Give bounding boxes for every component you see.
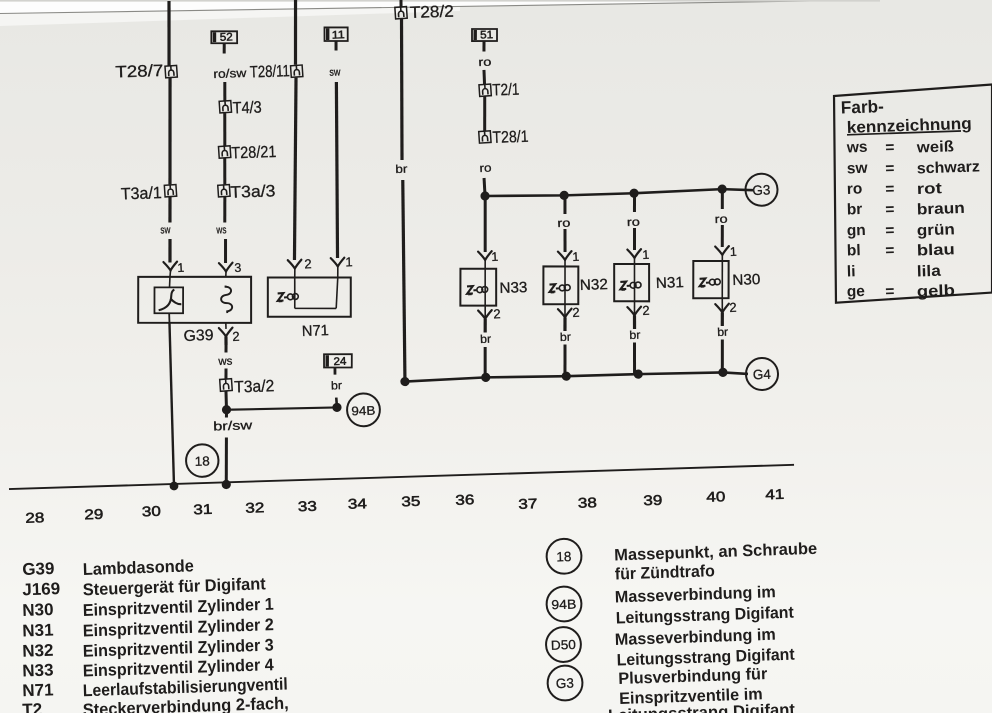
N31 pin 2 terminal: [627, 301, 642, 329]
wire color label ro at N30: [714, 214, 727, 226]
ground bus wire to G4: [405, 369, 748, 386]
wire A middle segment: [166, 78, 173, 185]
svg-text:rot: rot: [917, 180, 943, 198]
wire B stub below box 52: [222, 43, 226, 53]
legend title kennzeichnung underlined: [846, 115, 972, 137]
current track number 34: [348, 495, 368, 512]
wire segment N33 to G4 bus: [484, 347, 486, 377]
N71 pin 2 terminal: [288, 260, 302, 278]
svg-text:ro/sw: ro/sw: [213, 66, 247, 81]
connector T3a/1: [164, 185, 176, 197]
wire segment to T3a/2: [224, 368, 228, 378]
svg-text:2: 2: [642, 303, 650, 318]
page edge wedge: [0, 0, 880, 26]
color code row ge gelb: [847, 280, 956, 303]
svg-text:T2: T2: [22, 700, 42, 713]
svg-text:schwarz: schwarz: [917, 158, 981, 177]
svg-text:2: 2: [304, 256, 312, 271]
legend text Plusverbindung: [618, 665, 768, 688]
current track number 30: [142, 503, 162, 520]
svg-text:ro: ro: [627, 217, 640, 229]
color code row ws weiß: [846, 136, 955, 159]
wire stub G3 bus to N31: [634, 193, 635, 212]
N33 pin 1 terminal: [478, 251, 492, 269]
N30 pin 2 terminal: [715, 298, 730, 326]
svg-text:D50: D50: [551, 637, 576, 653]
pin number 2 at N33: [493, 306, 501, 321]
wire segment T3a/2 to junction: [224, 391, 228, 410]
svg-text:3: 3: [234, 261, 241, 275]
svg-text:ro: ro: [479, 163, 491, 175]
svg-text:li: li: [847, 263, 856, 280]
label T28/2: [410, 3, 455, 22]
injector valve N30 box: [692, 260, 730, 299]
svg-text:N33: N33: [499, 279, 528, 297]
terminal box 51: [472, 28, 498, 42]
svg-text:br: br: [331, 380, 343, 392]
svg-text:1: 1: [345, 254, 353, 269]
node dot G3 bus at N31: [629, 189, 638, 198]
ground connection 94B circle: [347, 393, 381, 427]
legend text Leitungsstrang 94B: [616, 604, 795, 628]
wire B segment to G39 pin 3: [225, 239, 227, 263]
svg-text:52: 52: [220, 31, 233, 43]
svg-text:ws: ws: [846, 139, 868, 157]
label T28/11: [250, 62, 291, 81]
legend symbol 94B label: [551, 596, 576, 612]
G39 inner wire pin1: [169, 277, 170, 287]
svg-text:33: 33: [298, 498, 318, 515]
legend text Leitungsstrang D50: [616, 646, 795, 670]
svg-text:T28/7: T28/7: [115, 62, 164, 82]
svg-text:=: =: [885, 181, 895, 198]
label G4: [753, 367, 772, 383]
legend text Masseverbindung 94B: [615, 583, 777, 606]
svg-text:1: 1: [730, 245, 737, 259]
node dot G4 bus at N31: [633, 369, 643, 378]
wire B segment 1: [224, 82, 225, 101]
ground connection G4 circle: [745, 357, 778, 390]
wire D segment: [332, 82, 343, 258]
pin number 2 at G39: [232, 329, 240, 344]
svg-text:T3a/2: T3a/2: [234, 377, 275, 396]
G39 inner wire below lambda box: [168, 313, 170, 323]
sensor G39 box: [137, 273, 253, 326]
ground point 18 circle: [186, 444, 219, 477]
svg-text:39: 39: [643, 492, 663, 509]
svg-text:ro: ro: [847, 180, 863, 198]
injector valve N32 box: [542, 265, 579, 305]
svg-text:N30: N30: [732, 271, 761, 289]
N30 inner wire: [721, 261, 724, 298]
svg-text:N32: N32: [22, 641, 54, 661]
pin number 1 at N32: [572, 250, 579, 264]
color code row li lila: [847, 260, 942, 282]
pin number 2 at N31: [642, 303, 650, 318]
svg-text:94B: 94B: [551, 596, 576, 612]
connector T28/11: [291, 65, 303, 77]
N32 valve icon: [549, 283, 570, 293]
legend text fuer Zuendtrafo: [615, 562, 716, 583]
wire E top stub: [399, 0, 402, 7]
wire A segment from G39 to rail: [169, 323, 175, 486]
G39 pin 2 terminal: [219, 323, 233, 346]
svg-text:br: br: [395, 164, 408, 176]
wire segment N31 to G4 bus: [633, 343, 635, 375]
label T3a/3: [230, 182, 276, 201]
svg-text:=: =: [885, 201, 895, 218]
current track number 37: [518, 495, 538, 512]
connector T28/21: [218, 146, 230, 158]
svg-text:=: =: [885, 283, 895, 300]
wire segment to N31 pin 1: [634, 228, 635, 250]
junction dot wire A on rail: [169, 481, 178, 490]
legend symbol D50 circle: [545, 627, 581, 663]
pin number 2 at N71: [304, 256, 312, 271]
svg-text:ro: ro: [557, 218, 570, 230]
svg-text:94B: 94B: [351, 404, 375, 419]
wire color label ro at N32: [557, 218, 570, 230]
wire color label br at N33: [480, 334, 492, 346]
svg-text:sw: sw: [847, 160, 869, 178]
wire color label br at N32: [560, 332, 572, 344]
wire color label ws below G39: [217, 356, 233, 368]
label N32: [580, 276, 609, 294]
label N71: [302, 322, 330, 340]
wire F segment 1: [482, 70, 486, 84]
wire C long segment: [288, 78, 302, 260]
wire link junction to 94B node: [226, 406, 336, 411]
legend text Masseverbindung D50: [615, 626, 777, 649]
legend row T2: [22, 692, 289, 718]
label T2/1: [492, 81, 520, 100]
svg-text:51: 51: [480, 29, 493, 41]
N33 inner wire: [484, 269, 486, 306]
svg-text:24: 24: [333, 356, 346, 368]
svg-text:18: 18: [556, 549, 572, 564]
svg-text:G39: G39: [22, 559, 55, 579]
svg-text:für Zündtrafo: für Zündtrafo: [615, 562, 716, 583]
legend symbol 18 label: [556, 549, 572, 564]
svg-text:1: 1: [177, 261, 184, 275]
svg-text:lila: lila: [917, 263, 942, 281]
legend row N32: [22, 633, 274, 662]
junction dot wire br/sw on rail: [222, 480, 231, 490]
current track number 29: [84, 506, 104, 523]
svg-text:36: 36: [455, 491, 475, 508]
wire stub G3 bus to N32: [564, 195, 565, 214]
color legend box Farb-kennzeichnung: [829, 85, 992, 303]
wire E lower segment: [398, 180, 409, 382]
label N31: [656, 274, 685, 292]
current track rail line: [9, 463, 794, 491]
legend text Leitungsstrang G3 cut: [608, 701, 796, 718]
wire color label br at N31: [629, 330, 641, 342]
svg-text:N30: N30: [22, 600, 54, 620]
N31 pin 1 terminal: [627, 249, 641, 264]
wire segment junction to rail: [225, 438, 228, 485]
svg-text:T3a/3: T3a/3: [230, 182, 276, 201]
connector T28/1: [479, 131, 491, 143]
wire color label br on wire E: [395, 164, 408, 176]
pin number 1 at N71: [345, 254, 353, 269]
wire C top segment: [293, 0, 297, 65]
svg-text:35: 35: [401, 493, 421, 510]
legend symbol D50 label: [551, 637, 576, 653]
legend row N30: [22, 593, 274, 622]
legend row J169: [22, 572, 266, 601]
N31 valve icon: [620, 281, 641, 291]
current track number 35: [401, 493, 421, 510]
svg-text:37: 37: [518, 495, 538, 512]
svg-text:br: br: [560, 332, 572, 344]
svg-text:N71: N71: [302, 322, 330, 340]
svg-text:11: 11: [332, 29, 345, 41]
wire color label ro lower: [479, 163, 491, 175]
wire stub 24 to node: [335, 398, 338, 408]
node dot G4 bus at N32: [562, 371, 572, 380]
junction node dot br/sw: [222, 405, 231, 414]
pin number 1 at N30: [730, 245, 737, 259]
svg-text:ge: ge: [847, 283, 866, 301]
label T3a/2: [234, 377, 275, 396]
legend text Massepunkt: [614, 540, 817, 565]
legend row G39: [22, 554, 194, 581]
pin number 1 at G39: [177, 261, 184, 275]
connector T3a/2: [220, 379, 233, 392]
svg-text:T2/1: T2/1: [492, 81, 520, 100]
pin number 2 at N30: [729, 300, 737, 315]
svg-text:gelb: gelb: [917, 282, 956, 300]
wire E long segment (br): [397, 18, 406, 160]
svg-text:38: 38: [578, 494, 598, 511]
wire stub below box 24: [333, 367, 336, 374]
svg-text:28: 28: [25, 509, 45, 526]
G39 heater element zigzag: [220, 285, 232, 313]
G39 pin 3 terminal: [219, 263, 233, 278]
svg-text:weiß: weiß: [916, 138, 955, 156]
valve N71 box: [267, 275, 353, 320]
svg-text:J169: J169: [22, 579, 60, 599]
N71 valve icon: [277, 292, 298, 302]
wire D stub below box 11: [334, 41, 338, 51]
label T28/1: [492, 128, 529, 147]
wire A top segment (sw): [167, 1, 171, 66]
svg-text:br: br: [717, 327, 729, 339]
svg-text:T28/21: T28/21: [231, 143, 277, 162]
svg-text:2: 2: [493, 306, 501, 321]
node dot G3 bus at N30: [717, 184, 727, 193]
svg-text:br/sw: br/sw: [213, 418, 254, 433]
svg-text:34: 34: [348, 495, 368, 512]
wire F stub below box 51: [482, 41, 486, 52]
wire B segment 4: [224, 197, 226, 223]
svg-text:sw: sw: [160, 224, 170, 236]
N30 pin 1 terminal: [715, 246, 729, 261]
wire segment N30 to G4 bus: [721, 340, 723, 373]
svg-text:2: 2: [572, 305, 580, 320]
wire A segment to G39 pin 1: [169, 239, 171, 263]
legend text Einspritzventile: [619, 685, 763, 708]
terminal box 24: [324, 353, 353, 368]
svg-text:T28/11: T28/11: [250, 62, 291, 81]
svg-text:N33: N33: [22, 660, 54, 680]
wire B segment 2: [224, 113, 226, 145]
wire F segment to G3 node: [483, 178, 487, 196]
wire color label br/sw: [213, 418, 254, 433]
wire color label ro top: [478, 57, 491, 69]
connector T4/3: [219, 101, 231, 113]
wire color label ro at N31: [627, 217, 640, 229]
wire segment G3 bus to N33: [483, 197, 487, 252]
svg-text:=: =: [885, 242, 895, 259]
current track number 41: [765, 486, 785, 503]
wire segment to N32 pin 1: [564, 229, 565, 252]
svg-text:T28/1: T28/1: [492, 128, 529, 147]
svg-text:G39: G39: [183, 327, 214, 345]
svg-text:blau: blau: [917, 241, 956, 259]
svg-text:br: br: [629, 330, 641, 342]
svg-text:G3: G3: [556, 676, 575, 692]
node dot G3 bus at N33: [480, 191, 490, 200]
svg-text:G3: G3: [752, 182, 770, 198]
wire color label sw: [160, 224, 170, 236]
N30 valve icon: [699, 277, 720, 287]
svg-text:gn: gn: [847, 222, 866, 240]
wire segment to N30 pin 1: [722, 225, 724, 247]
pin number 1 at N33: [491, 250, 498, 264]
svg-text:N31: N31: [656, 274, 685, 292]
current track number 32: [245, 499, 265, 516]
svg-text:G4: G4: [753, 367, 772, 383]
wire A lower segment: [169, 197, 171, 222]
label G3: [752, 182, 770, 198]
pin number 1 at N31: [642, 248, 649, 262]
wire color label br at N30: [717, 327, 729, 339]
wire color label ro/sw: [213, 66, 247, 81]
wire color label sw on wire D: [329, 66, 340, 78]
label T28/7: [115, 62, 164, 82]
svg-text:31: 31: [193, 501, 213, 518]
label T3a/1: [120, 184, 162, 203]
connector T2/1: [479, 84, 491, 96]
connector T3a/3: [218, 185, 230, 197]
current track number 31: [193, 501, 213, 518]
N71 inner wire loop: [294, 276, 339, 310]
svg-text:ro: ro: [478, 57, 491, 69]
current track number 36: [455, 491, 475, 508]
color code row bl blau: [847, 239, 955, 262]
N32 pin 2 terminal: [558, 304, 572, 331]
wire B segment 3: [224, 158, 226, 184]
plus connection G3 circle: [745, 173, 778, 206]
svg-text:18: 18: [194, 453, 209, 468]
legend row N71: [22, 673, 288, 703]
G39 pin 1 terminal: [163, 262, 177, 278]
svg-text:bl: bl: [847, 242, 861, 259]
current track number 39: [643, 492, 663, 509]
svg-text:br: br: [847, 201, 863, 219]
pin number 3 at G39: [234, 261, 241, 275]
legend symbol 94B circle: [546, 586, 582, 622]
legend row N31: [22, 613, 274, 642]
legend symbol 18 circle: [546, 538, 582, 574]
svg-text:N32: N32: [580, 276, 609, 294]
label G39: [183, 327, 214, 345]
legend symbol G3 label: [556, 676, 575, 692]
N33 pin 2 terminal: [478, 305, 492, 332]
svg-text:T3a/1: T3a/1: [120, 184, 162, 203]
color code row gn grün: [847, 219, 956, 242]
svg-text:1: 1: [491, 250, 498, 264]
svg-text:30: 30: [142, 503, 162, 520]
node dot G4 bus at N30: [718, 368, 728, 378]
wire color label br below box 24: [331, 380, 343, 392]
terminal box 52: [211, 30, 238, 44]
injector valve N33 box: [459, 268, 497, 307]
terminal box 11: [324, 27, 348, 42]
svg-text:braun: braun: [917, 200, 966, 219]
wire stub G3 bus to N30: [722, 189, 723, 209]
N71 pin 1 terminal: [331, 258, 345, 278]
svg-text:2: 2: [729, 300, 737, 315]
N33 valve icon: [467, 285, 488, 295]
svg-text:40: 40: [706, 488, 726, 505]
label T4/3: [232, 99, 262, 118]
wire segment N32 to G4 bus: [564, 345, 566, 377]
svg-text:41: 41: [765, 486, 785, 503]
svg-text:N71: N71: [22, 680, 54, 700]
label N33: [499, 279, 528, 297]
svg-text:T28/2: T28/2: [410, 3, 455, 22]
svg-text:=: =: [885, 160, 895, 177]
N32 inner wire: [564, 266, 567, 304]
legend row N33: [22, 653, 274, 682]
legend symbol G3 circle: [547, 665, 583, 701]
label T28/21: [231, 143, 277, 162]
node dot G4 bus at wire E: [400, 377, 410, 386]
svg-text:=: =: [885, 222, 895, 239]
svg-text:=: =: [885, 139, 895, 156]
current track number 40: [706, 488, 726, 505]
svg-text:Lambdasonde: Lambdasonde: [82, 556, 194, 579]
color code row ro rot: [847, 178, 943, 200]
injector valve N31 box: [613, 263, 650, 303]
svg-text:1: 1: [572, 250, 579, 264]
label 18: [194, 453, 209, 468]
svg-text:32: 32: [245, 499, 265, 516]
color code row sw schwarz: [847, 156, 981, 180]
svg-text:sw: sw: [329, 66, 340, 78]
junction node dot at 94B: [332, 403, 341, 412]
svg-text:grün: grün: [917, 221, 956, 239]
lambda sensor curve: [157, 289, 181, 310]
plus bus wire to G3: [485, 187, 753, 199]
svg-text:ws: ws: [216, 224, 227, 236]
wire stub below junction: [225, 410, 229, 418]
wire color label ws: [216, 224, 227, 236]
svg-text:br: br: [480, 334, 492, 346]
label N30: [732, 271, 761, 289]
svg-text:29: 29: [84, 506, 104, 523]
svg-text:Farb-: Farb-: [840, 96, 884, 117]
svg-text:1: 1: [642, 248, 649, 262]
color code row br braun: [847, 198, 966, 221]
svg-text:N31: N31: [22, 620, 54, 640]
svg-text:T4/3: T4/3: [232, 99, 262, 118]
svg-text:2: 2: [232, 329, 240, 344]
wire segment G39 pin2 down (ws): [224, 345, 228, 353]
